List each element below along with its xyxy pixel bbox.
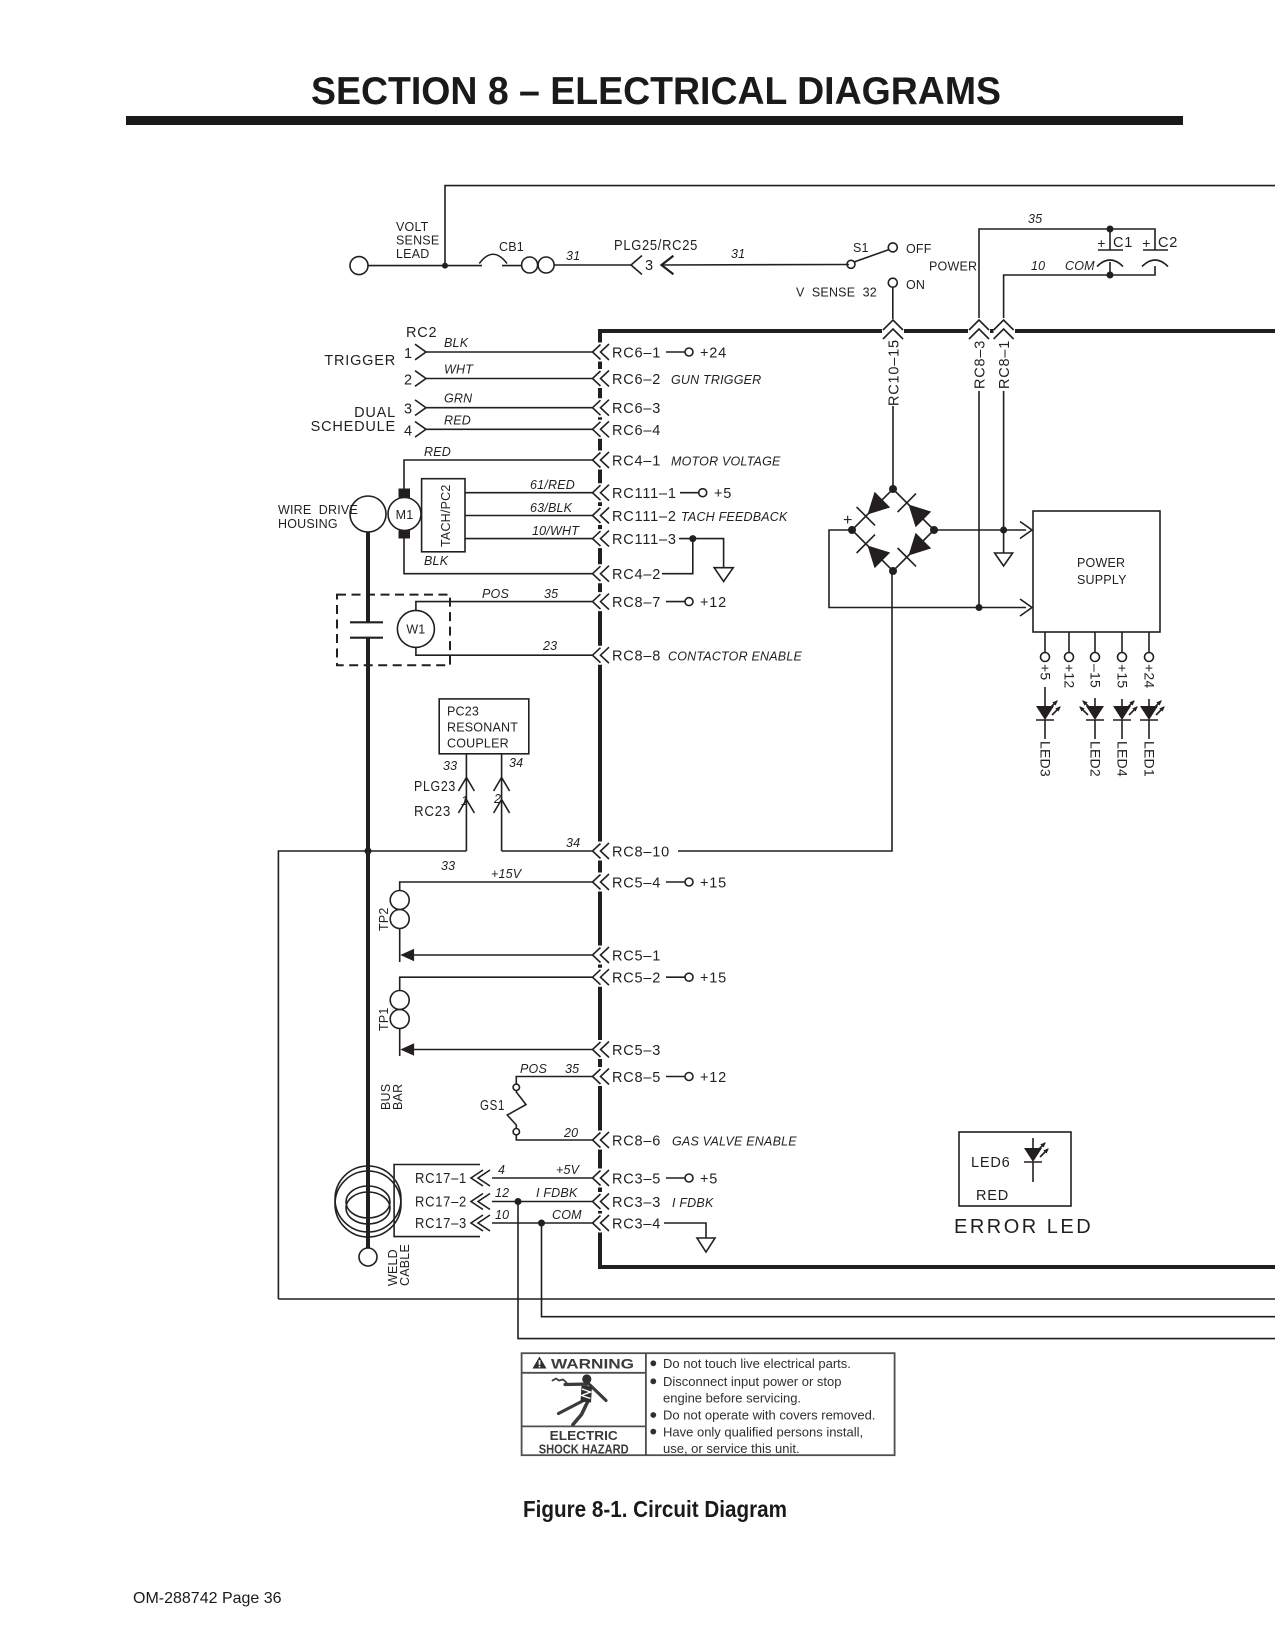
wire drive housing circle bbox=[350, 496, 386, 532]
svg-text:33: 33 bbox=[443, 759, 457, 773]
svg-text:+5V: +5V bbox=[556, 1163, 581, 1177]
svg-text:ON: ON bbox=[906, 278, 925, 292]
wire RC4-2 to node bbox=[662, 539, 693, 574]
current transformer toroid on weld cable bbox=[335, 1166, 401, 1232]
svg-text:VOLTSENSELEAD: VOLTSENSELEAD bbox=[396, 220, 439, 261]
wire node to CB1 bbox=[445, 265, 482, 267]
svg-text:RC3–4: RC3–4 bbox=[612, 1217, 661, 1233]
wire +15V to RC5-4 bbox=[400, 882, 592, 891]
wire node up and right off page bbox=[445, 186, 1275, 266]
svg-text:POWER: POWER bbox=[929, 260, 977, 274]
svg-text:V SENSE 32: V SENSE 32 bbox=[796, 286, 877, 300]
node C1 top bbox=[1107, 226, 1114, 233]
connector RC8-7 bbox=[593, 594, 610, 610]
wire 4 +5V bbox=[492, 1177, 592, 1179]
svg-text:TACH FEEDBACK: TACH FEEDBACK bbox=[681, 510, 788, 524]
arrow RC5-3 bbox=[400, 1043, 414, 1055]
wire GRN bbox=[426, 407, 592, 409]
svg-text:RC8–10: RC8–10 bbox=[612, 845, 670, 861]
svg-text:LED4: LED4 bbox=[1115, 741, 1131, 777]
svg-text:+15: +15 bbox=[700, 971, 727, 987]
node C1 bottom bbox=[1107, 272, 1114, 279]
wire BLK bbox=[426, 351, 592, 353]
node bridge bottom bbox=[889, 567, 897, 575]
wire RC8-3 below label bbox=[978, 391, 980, 608]
svg-text:Disconnect input power or stop: Disconnect input power or stop bbox=[663, 1374, 841, 1389]
wire W1 to RC8-7 POS 35 bbox=[416, 602, 592, 611]
svg-text:+: + bbox=[1142, 235, 1150, 251]
LED1 indicator bbox=[1148, 699, 1150, 706]
bullet: qualified persons bbox=[650, 1429, 656, 1435]
svg-text:CB1: CB1 bbox=[499, 240, 524, 254]
svg-text:C1: C1 bbox=[1113, 235, 1133, 251]
contactor W1 dashed enclosure bbox=[337, 595, 450, 666]
svg-text:GS1: GS1 bbox=[480, 1098, 505, 1114]
svg-text:63/BLK: 63/BLK bbox=[530, 501, 573, 515]
svg-text:SECTION 8 – ELECTRICAL DIAGRAM: SECTION 8 – ELECTRICAL DIAGRAMS bbox=[311, 70, 1001, 113]
wire 61/RED bbox=[465, 492, 592, 494]
arrow RC5-1 bbox=[400, 949, 414, 961]
svg-text:3: 3 bbox=[645, 258, 654, 274]
svg-text:WHT: WHT bbox=[444, 363, 474, 377]
svg-text:2: 2 bbox=[404, 373, 413, 389]
bullet: disconnect input power bbox=[650, 1378, 656, 1384]
LED6 symbol bbox=[1032, 1138, 1034, 1150]
svg-text:+15V: +15V bbox=[491, 867, 523, 881]
svg-text:RC17–3: RC17–3 bbox=[415, 1216, 467, 1232]
wire BLK motor bbox=[404, 539, 592, 574]
wire RC3-4 to ground bbox=[664, 1223, 706, 1238]
svg-text:TACH/PC2: TACH/PC2 bbox=[439, 485, 453, 548]
wire 12 I FDBK bbox=[492, 1201, 592, 1203]
svg-text:RC4–2: RC4–2 bbox=[612, 567, 661, 583]
svg-text:+5: +5 bbox=[1038, 664, 1054, 680]
svg-text:+: + bbox=[843, 512, 853, 529]
wire RC111-3 to ground bbox=[679, 539, 724, 568]
svg-text:RC10–15: RC10–15 bbox=[887, 339, 903, 406]
power supply input arrows bbox=[1020, 522, 1032, 539]
pictogram torso bbox=[581, 1386, 593, 1403]
main board left edge (thick, gapped at connectors) bbox=[598, 331, 602, 1267]
bullet: do not operate bbox=[650, 1412, 656, 1418]
svg-text:PLG25/RC25: PLG25/RC25 bbox=[614, 238, 698, 254]
svg-text:+24: +24 bbox=[700, 346, 727, 362]
node RC8-1 on + wire bbox=[1000, 527, 1007, 534]
capacitor C1 bbox=[1109, 229, 1111, 250]
wire PLG25 to S1 bbox=[662, 264, 850, 267]
weld cable terminal bbox=[359, 1248, 377, 1266]
svg-text:35: 35 bbox=[565, 1062, 579, 1076]
connector RC111-2 bbox=[593, 508, 610, 524]
svg-text:4: 4 bbox=[404, 423, 413, 439]
top bus line bbox=[598, 329, 1275, 333]
svg-text:35: 35 bbox=[1028, 212, 1042, 226]
svg-text:20: 20 bbox=[563, 1126, 578, 1140]
svg-text:GUN TRIGGER: GUN TRIGGER bbox=[671, 373, 761, 387]
connector RC4-2 bbox=[593, 566, 610, 582]
diode D1 upper-left bbox=[868, 492, 891, 515]
node RC111-3 / RC4-2 bbox=[689, 535, 696, 542]
power supply output pins bbox=[1045, 632, 1149, 653]
wire terminal to node bbox=[368, 265, 445, 267]
svg-text:RC6–1: RC6–1 bbox=[612, 346, 661, 362]
error LED box bbox=[959, 1132, 1071, 1206]
power supply box bbox=[1033, 511, 1160, 632]
motor M1 bbox=[399, 489, 411, 498]
contactor coil W1 bbox=[397, 610, 434, 647]
svg-text:RC8–7: RC8–7 bbox=[612, 595, 661, 611]
PC23 pin 33 lead bbox=[465, 754, 467, 851]
svg-text:RC6–3: RC6–3 bbox=[612, 401, 661, 417]
svg-text:OM-288742 Page 36: OM-288742 Page 36 bbox=[133, 1590, 282, 1607]
svg-text:3: 3 bbox=[404, 402, 413, 418]
wire COM to right edge bbox=[542, 1223, 1275, 1317]
wire RC10-15 to bridge bbox=[892, 341, 894, 342]
title rule bbox=[126, 116, 1183, 125]
svg-text:POS: POS bbox=[482, 587, 509, 601]
wire TP2 to RC5-1 bbox=[399, 929, 401, 963]
svg-text:+: + bbox=[1097, 235, 1105, 251]
node RC8-3 on - wire bbox=[976, 604, 983, 611]
connector RC5-2 bbox=[593, 969, 610, 985]
wire W1 to RC8-8 23 bbox=[416, 647, 592, 655]
diode D3 lower-left bbox=[868, 546, 891, 569]
warning box frame bbox=[522, 1353, 895, 1455]
terminal -15 bbox=[1091, 653, 1100, 662]
svg-text:Have only qualified persons in: Have only qualified persons install, bbox=[663, 1424, 863, 1439]
svg-text:RC3–5: RC3–5 bbox=[612, 1172, 661, 1188]
svg-text:SHOCK HAZARD: SHOCK HAZARD bbox=[539, 1442, 629, 1457]
diode D2 upper-right bbox=[909, 505, 932, 528]
wire 34 net to RC8-10 bbox=[502, 850, 592, 852]
svg-text:61/RED: 61/RED bbox=[530, 478, 575, 492]
svg-text:BLK: BLK bbox=[424, 554, 449, 568]
connector RC5-1 bbox=[593, 947, 610, 963]
warning triangle icon bbox=[533, 1357, 547, 1369]
terminal +5 bbox=[1041, 653, 1050, 662]
svg-text:COUPLER: COUPLER bbox=[447, 737, 509, 751]
svg-text:Do not touch live electrical p: Do not touch live electrical parts. bbox=[663, 1356, 851, 1371]
connector RC10-15 bbox=[883, 320, 903, 339]
svg-text:+12: +12 bbox=[700, 1070, 727, 1086]
svg-text:RC8–1: RC8–1 bbox=[997, 340, 1013, 389]
LED4 indicator bbox=[1121, 699, 1123, 706]
svg-text:CABLE: CABLE bbox=[398, 1244, 412, 1286]
wire 10 COM bbox=[492, 1222, 592, 1224]
svg-text:COM: COM bbox=[552, 1208, 582, 1222]
connector RC6-4 bbox=[593, 421, 610, 437]
svg-text:PLG23: PLG23 bbox=[414, 779, 456, 795]
wire S1 ON down to RC10-15 bbox=[892, 287, 894, 319]
wire RC8-10 to bridge bbox=[678, 571, 892, 851]
svg-text:RC17–1: RC17–1 bbox=[415, 1171, 467, 1187]
svg-text:34: 34 bbox=[509, 756, 523, 770]
svg-text:CONTACTOR ENABLE: CONTACTOR ENABLE bbox=[668, 650, 802, 664]
wire RED motor voltage bbox=[404, 460, 592, 489]
svg-text:WARNING: WARNING bbox=[551, 1356, 634, 1372]
svg-text:LED6: LED6 bbox=[971, 1155, 1010, 1171]
wire WHT bbox=[426, 378, 592, 380]
node: volt sense junction bbox=[442, 263, 448, 269]
svg-text:10: 10 bbox=[1031, 259, 1045, 273]
svg-text:engine before servicing.: engine before servicing. bbox=[663, 1390, 801, 1405]
wire 10/WHT bbox=[465, 538, 592, 540]
svg-text:31: 31 bbox=[731, 247, 745, 261]
svg-text:+12: +12 bbox=[700, 595, 727, 611]
svg-text:S1: S1 bbox=[853, 241, 869, 255]
svg-text:Do not operate with covers rem: Do not operate with covers removed. bbox=[663, 1408, 875, 1423]
connector RC6-2 bbox=[593, 371, 610, 387]
connector RC3-4 bbox=[593, 1215, 610, 1231]
wire 31 to PLG25 bbox=[554, 264, 631, 266]
svg-text:RC17–2: RC17–2 bbox=[415, 1195, 467, 1211]
test point TP2 bbox=[390, 891, 409, 910]
chassis ground bbox=[995, 553, 1013, 566]
svg-text:PC23: PC23 bbox=[447, 705, 479, 719]
connector RC111-3 bbox=[593, 531, 610, 547]
connector RC3-5 bbox=[593, 1170, 610, 1186]
connector RC17 bracket bbox=[394, 1165, 480, 1237]
svg-text:+15: +15 bbox=[700, 876, 727, 892]
wire bridge left loop to power supply bbox=[829, 530, 1026, 608]
svg-text:RC5–1: RC5–1 bbox=[612, 949, 661, 965]
LED3 indicator bbox=[1044, 687, 1046, 706]
electric shock pictogram bbox=[553, 1379, 607, 1425]
svg-text:23: 23 bbox=[542, 639, 557, 653]
svg-text:35: 35 bbox=[544, 587, 558, 601]
svg-text:RED: RED bbox=[424, 445, 451, 459]
svg-text:RC8–3: RC8–3 bbox=[973, 340, 989, 389]
svg-text:RC111–2: RC111–2 bbox=[612, 509, 677, 525]
wire 10 COM net bbox=[1004, 266, 1155, 318]
connector RC5-4 bbox=[593, 874, 610, 890]
svg-text:ERROR LED: ERROR LED bbox=[954, 1216, 1093, 1238]
svg-text:+24: +24 bbox=[1142, 664, 1158, 688]
bus bar (thick) lower bbox=[366, 638, 370, 1248]
svg-text:RC6–2: RC6–2 bbox=[612, 372, 661, 388]
wire I FDBK to right edge bbox=[518, 1202, 1275, 1339]
connector RC5-3 bbox=[593, 1042, 610, 1058]
svg-text:31: 31 bbox=[566, 249, 580, 263]
wire RED bbox=[426, 428, 592, 430]
svg-text:MOTOR VOLTAGE: MOTOR VOLTAGE bbox=[671, 455, 781, 469]
svg-text:OFF: OFF bbox=[906, 242, 932, 256]
connector RC8-8 bbox=[593, 647, 610, 663]
connector RC111-1 bbox=[593, 485, 610, 501]
svg-text:+15: +15 bbox=[1115, 664, 1131, 688]
wire 20 to RC8-6 bbox=[516, 1135, 592, 1140]
connector RC8-10 bbox=[593, 843, 610, 859]
svg-text:HOUSING: HOUSING bbox=[278, 517, 338, 531]
svg-text:LED1: LED1 bbox=[1142, 741, 1158, 777]
connector RC8-1 bbox=[994, 320, 1014, 339]
svg-text:RC2: RC2 bbox=[406, 325, 437, 341]
svg-text:BLK: BLK bbox=[444, 336, 469, 350]
svg-text:POWER: POWER bbox=[1077, 556, 1125, 570]
PC23 pin 34 lead bbox=[501, 754, 503, 851]
svg-text:RC5–3: RC5–3 bbox=[612, 1043, 661, 1059]
tach board TACH/PC2 bbox=[422, 479, 465, 552]
terminal +24 bbox=[1145, 653, 1154, 662]
connector RC8-3 bbox=[969, 320, 989, 339]
svg-text:COM: COM bbox=[1065, 259, 1095, 273]
terminal +12 bbox=[1065, 653, 1074, 662]
svg-text:LED2: LED2 bbox=[1088, 741, 1104, 777]
svg-text:+12: +12 bbox=[1062, 664, 1078, 688]
node I FDBK bbox=[515, 1198, 522, 1205]
svg-text:RC8–5: RC8–5 bbox=[612, 1070, 661, 1086]
svg-text:12: 12 bbox=[495, 1186, 509, 1200]
bullet: do not touch bbox=[650, 1360, 656, 1366]
wire 33 riser bottom to right edge bbox=[278, 1298, 1275, 1300]
svg-text:TP2: TP2 bbox=[377, 907, 391, 931]
svg-text:RC23: RC23 bbox=[414, 804, 451, 820]
svg-text:–15: –15 bbox=[1088, 664, 1104, 688]
LED2 indicator bbox=[1094, 698, 1096, 706]
node bridge top bbox=[889, 485, 897, 493]
svg-text:RC8–8: RC8–8 bbox=[612, 649, 661, 665]
svg-text:RC5–4: RC5–4 bbox=[612, 876, 661, 892]
svg-text:34: 34 bbox=[566, 836, 580, 850]
svg-text:W1: W1 bbox=[406, 623, 425, 637]
svg-text:LED3: LED3 bbox=[1038, 741, 1054, 777]
svg-text:RC6–4: RC6–4 bbox=[612, 423, 661, 439]
svg-text:WIRE DRIVE: WIRE DRIVE bbox=[278, 503, 358, 517]
wire 33 net to left riser bbox=[278, 851, 466, 1299]
svg-text:10/WHT: 10/WHT bbox=[532, 524, 580, 538]
svg-text:4: 4 bbox=[498, 1163, 505, 1177]
svg-text:use, or service this unit.: use, or service this unit. bbox=[663, 1441, 800, 1456]
svg-text:M1: M1 bbox=[396, 508, 414, 522]
resonant coupler PC23 bbox=[439, 699, 529, 754]
svg-text:33: 33 bbox=[441, 859, 455, 873]
node bridge left bbox=[848, 526, 856, 534]
svg-text:RC4–1: RC4–1 bbox=[612, 454, 661, 470]
svg-text:1: 1 bbox=[404, 346, 413, 362]
bottom bus line bbox=[598, 1265, 1275, 1269]
connector RC6-1 bbox=[593, 344, 610, 360]
svg-text:BAR: BAR bbox=[391, 1084, 405, 1110]
capacitor C2 bbox=[1143, 249, 1168, 251]
wire POS 35 to RC8-5 bbox=[516, 1077, 592, 1085]
svg-text:RC111–1: RC111–1 bbox=[612, 486, 677, 502]
svg-text:C2: C2 bbox=[1158, 235, 1178, 251]
node bus bar / 33 wire bbox=[365, 848, 372, 855]
svg-text:POS: POS bbox=[520, 1062, 547, 1076]
wire 63/BLK bbox=[465, 515, 592, 517]
svg-text:TRIGGER: TRIGGER bbox=[324, 353, 396, 369]
bridge rectifier diamond bbox=[852, 489, 934, 571]
svg-text:GRN: GRN bbox=[444, 392, 473, 406]
svg-text:SUPPLY: SUPPLY bbox=[1077, 573, 1127, 587]
terminal +15 bbox=[1118, 653, 1127, 662]
contactor W1 contact plates bbox=[350, 622, 383, 637]
svg-text:Figure 8-1. Circuit Diagram: Figure 8-1. Circuit Diagram bbox=[523, 1496, 787, 1522]
chassis ground bbox=[697, 1238, 715, 1252]
svg-text:GAS VALVE ENABLE: GAS VALVE ENABLE bbox=[672, 1135, 797, 1149]
plug circles CB1/RC bbox=[522, 257, 538, 273]
pictogram head bbox=[582, 1374, 591, 1383]
svg-text:RED: RED bbox=[444, 413, 471, 427]
svg-text:SCHEDULE: SCHEDULE bbox=[311, 419, 396, 435]
svg-text:RED: RED bbox=[976, 1188, 1009, 1204]
svg-text:TP1: TP1 bbox=[377, 1007, 391, 1031]
svg-text:+5: +5 bbox=[700, 1172, 718, 1188]
svg-text:I FDBK: I FDBK bbox=[672, 1196, 714, 1210]
wire RC8-1 below label bbox=[1003, 391, 1005, 530]
diode D4 lower-right bbox=[909, 533, 932, 556]
connector RC4-1 bbox=[593, 452, 610, 468]
svg-text:2: 2 bbox=[493, 792, 501, 806]
svg-text:RC8–6: RC8–6 bbox=[612, 1134, 661, 1150]
bus bar (thick) upper bbox=[366, 532, 370, 622]
terminal: volt sense lead bbox=[350, 257, 368, 275]
connector RC3-3 bbox=[593, 1194, 610, 1210]
svg-text:+5: +5 bbox=[714, 486, 732, 502]
node COM bbox=[538, 1220, 545, 1227]
wire 35 net bbox=[979, 229, 1155, 318]
svg-text:I FDBK: I FDBK bbox=[536, 1186, 578, 1200]
wire TP1 to RC5-3 bbox=[399, 1029, 401, 1057]
node bridge right bbox=[930, 526, 938, 534]
connector RC8-5 bbox=[593, 1069, 610, 1085]
svg-text:10: 10 bbox=[495, 1208, 509, 1222]
wire bridge right to power supply bbox=[934, 529, 1026, 531]
chassis ground bbox=[714, 568, 733, 582]
svg-text:RC3–3: RC3–3 bbox=[612, 1195, 661, 1211]
connector RC8-6 bbox=[593, 1132, 610, 1148]
wire RC8-1 stub to ground bbox=[1003, 530, 1005, 553]
test point TP1 bbox=[390, 991, 409, 1010]
svg-text:RC111–3: RC111–3 bbox=[612, 532, 677, 548]
wire RC5-2 to TP1 bbox=[400, 977, 592, 990]
svg-text:RC5–2: RC5–2 bbox=[612, 971, 661, 987]
connector RC6-3 bbox=[593, 400, 610, 416]
svg-text:RESONANT: RESONANT bbox=[447, 721, 518, 735]
